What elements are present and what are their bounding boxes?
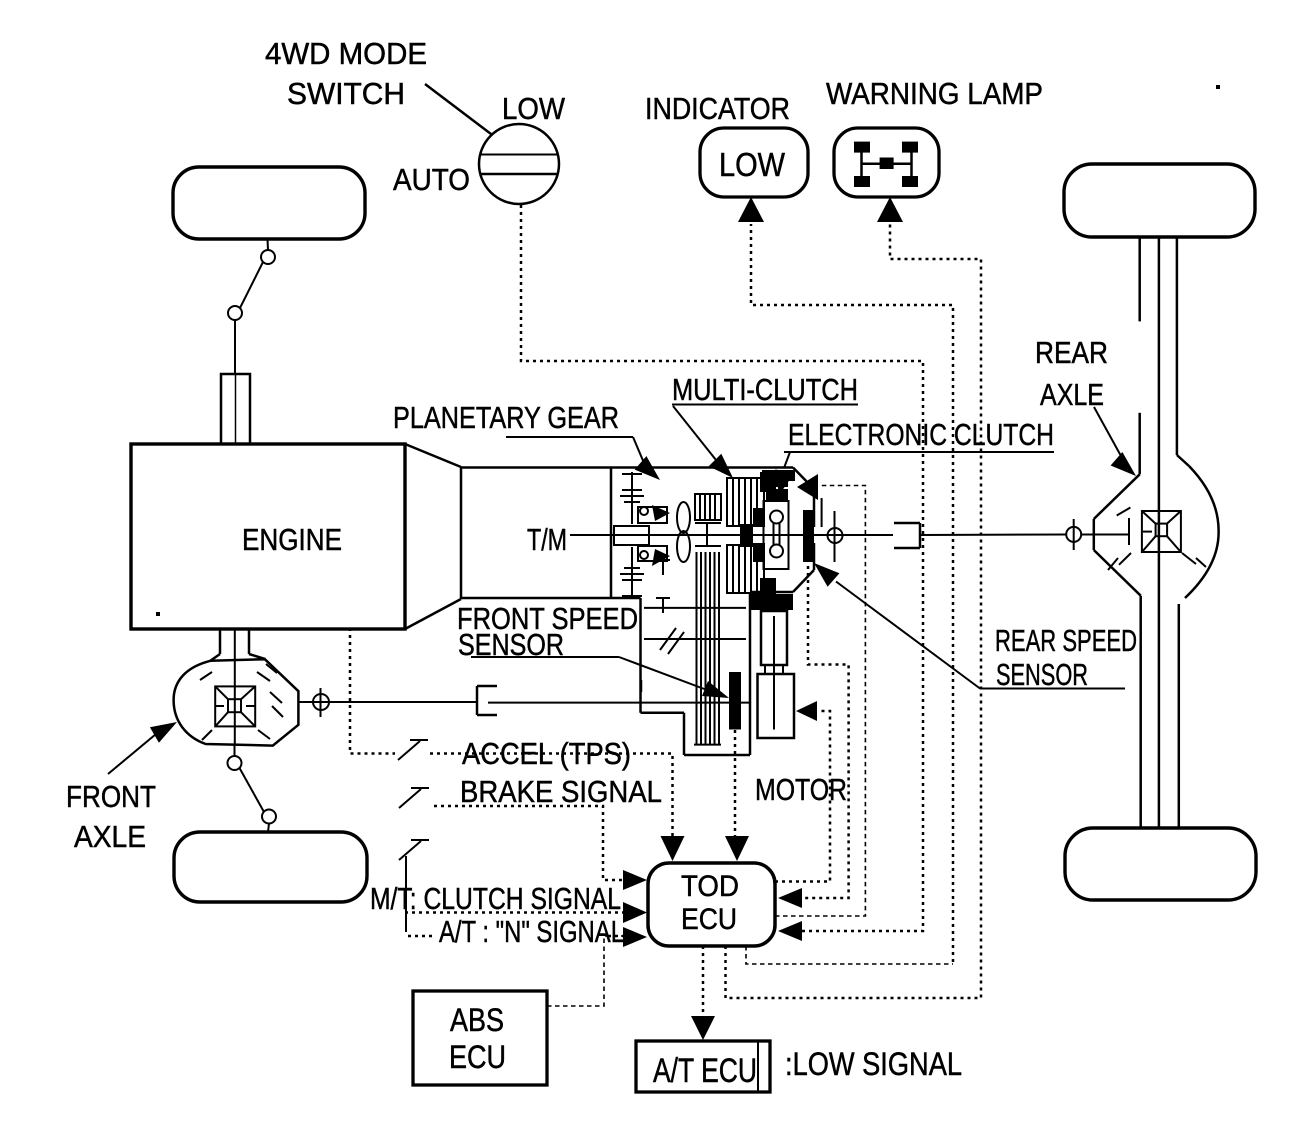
front axle input shaft xyxy=(221,374,250,444)
arrow M/T into TOD left xyxy=(623,902,647,923)
svg-text:AXLE: AXLE xyxy=(1040,377,1104,412)
output coupling link xyxy=(764,501,789,569)
front propshaft slip joint bracket xyxy=(477,686,497,715)
svg-text:INDICATOR: INDICATOR xyxy=(645,91,790,126)
planetary gear set xyxy=(614,472,670,599)
wire mode switch to TOD xyxy=(521,205,923,931)
callout front axle xyxy=(108,722,177,774)
rear differential housing xyxy=(1094,466,1219,828)
svg-text:ECU: ECU xyxy=(449,1039,506,1075)
arrow TOD to motor xyxy=(796,701,817,721)
switch symbol brake xyxy=(399,788,429,808)
wheel front-left xyxy=(173,167,365,239)
arrow into warning lamp xyxy=(877,197,903,222)
dotted signal lines xyxy=(350,205,981,1017)
front shaft joint xyxy=(313,688,329,717)
svg-text:ABS: ABS xyxy=(450,1002,504,1038)
wire rear speed sensor to TOD xyxy=(803,566,849,898)
warning lamp box xyxy=(834,128,939,197)
svg-text:TOD: TOD xyxy=(681,870,739,903)
arrow TOD to A/T ECU xyxy=(691,1016,715,1040)
front output drop chain column xyxy=(694,552,721,745)
svg-text:REAR SPEED: REAR SPEED xyxy=(995,623,1137,658)
svg-text::LOW SIGNAL: :LOW SIGNAL xyxy=(785,1046,962,1082)
arrow A/T into TOD left xyxy=(623,927,647,947)
svg-text:PLANETARY GEAR: PLANETARY GEAR xyxy=(393,400,619,435)
front differential bevel marks xyxy=(200,664,283,740)
transmission and transfer case outline xyxy=(461,468,814,756)
wheel rear-right lower xyxy=(1065,828,1256,900)
transfer case section lines xyxy=(644,608,746,654)
wire TOD to A/T ECU xyxy=(702,946,705,1017)
tick below case wall xyxy=(640,680,643,692)
svg-text:4WD MODE: 4WD MODE xyxy=(265,36,427,71)
warning lamp 4wd icon xyxy=(854,142,918,187)
rear differential bevel marks xyxy=(1108,508,1206,571)
svg-text:SWITCH: SWITCH xyxy=(287,76,405,111)
svg-text:A/T ECU: A/T ECU xyxy=(653,1052,757,1090)
bell housing xyxy=(405,444,461,629)
case black corner upper xyxy=(762,470,795,481)
arrow front speed into TOD top xyxy=(725,836,749,861)
speck top right xyxy=(1216,85,1220,89)
svg-text:FRONT: FRONT xyxy=(66,779,156,814)
wire M/T clutch signal to TOD xyxy=(405,911,624,914)
svg-text:BRAKE SIGNAL: BRAKE SIGNAL xyxy=(460,774,662,809)
multi-clutch pack upper xyxy=(727,472,776,535)
callout rear axle xyxy=(1094,407,1136,476)
arrow brake into TOD left xyxy=(623,870,647,890)
small bearing marks under planetary xyxy=(656,560,670,613)
front output shaft xyxy=(298,701,749,704)
speck in engine xyxy=(156,612,160,616)
svg-text:M/T: CLUTCH SIGNAL: M/T: CLUTCH SIGNAL xyxy=(370,881,621,916)
4WD mode switch symbol xyxy=(425,84,559,204)
switch symbol accel xyxy=(398,740,428,760)
rear speed sensor rotor (black bar) xyxy=(803,510,814,562)
rear propshaft slip joint bracket xyxy=(894,523,920,548)
svg-text:T/M: T/M xyxy=(527,522,567,557)
arrow into indicator xyxy=(738,197,764,222)
svg-text:SENSOR: SENSOR xyxy=(996,657,1088,692)
front differential gear (square with cross) xyxy=(215,686,255,726)
output joint xyxy=(828,511,843,562)
rear axle housing upper xyxy=(1140,237,1189,828)
svg-text:WARNING LAMP: WARNING LAMP xyxy=(826,76,1043,111)
wire TOD to indicator (return tail) xyxy=(746,946,953,964)
wire TOD to electronic clutch xyxy=(775,486,865,917)
ABS ECU box xyxy=(413,991,547,1085)
switch symbol clutch/neutral xyxy=(399,840,429,932)
wheel rear-right xyxy=(1064,164,1255,237)
callout electronic clutch xyxy=(775,452,1054,500)
svg-text:ELECTRONIC CLUTCH: ELECTRONIC CLUTCH xyxy=(788,417,1054,452)
wire ABS ECU to TOD xyxy=(547,936,624,1006)
svg-text:MOTOR: MOTOR xyxy=(755,772,847,807)
callout multi-clutch xyxy=(672,405,858,479)
TOD ECU box xyxy=(648,863,775,946)
rear shaft joint xyxy=(1066,519,1081,550)
arrow mode switch into TOD right xyxy=(778,921,802,941)
wire brake signal to TOD xyxy=(434,806,624,880)
svg-text:LOW: LOW xyxy=(502,91,566,126)
engine lower shaft to front axle xyxy=(210,629,265,745)
front speed sensor (black bar) xyxy=(729,672,741,730)
svg-text:MULTI-CLUTCH: MULTI-CLUTCH xyxy=(672,372,858,407)
svg-text:ECU: ECU xyxy=(681,903,737,936)
callout planetary gear xyxy=(506,437,660,480)
drive chain sprocket ellipses xyxy=(677,502,690,562)
electronic clutch actuator (black) xyxy=(766,474,822,527)
callout rear speed sensor xyxy=(814,563,1125,689)
upper gear block xyxy=(695,494,721,546)
wire accel TPS to TOD xyxy=(350,628,395,754)
wheel front-left lower xyxy=(174,832,367,902)
wire TOD to motor xyxy=(775,711,830,882)
callout front speed sensor xyxy=(471,657,729,698)
svg-text:REAR: REAR xyxy=(1035,335,1108,370)
svg-text:A/T : "N" SIGNAL: A/T : "N" SIGNAL xyxy=(439,914,624,949)
svg-text:AXLE: AXLE xyxy=(74,819,146,854)
arrow rear speed into TOD right xyxy=(778,888,802,908)
svg-text:ENGINE: ENGINE xyxy=(242,522,342,557)
thin dashed control lines xyxy=(547,486,953,1007)
wire TOD to indicator xyxy=(751,224,953,962)
front axle differential housing xyxy=(174,659,299,745)
rear differential gear (square with cross) xyxy=(1142,511,1181,552)
main shaft (T/M to rear) xyxy=(570,534,1129,537)
svg-text:AUTO: AUTO xyxy=(393,162,470,197)
link front diff to lower wheel xyxy=(228,745,277,832)
engine block xyxy=(131,444,405,629)
A/T ECU box xyxy=(636,1041,770,1092)
wire A/T N signal to TOD xyxy=(408,935,436,938)
case black corner lower xyxy=(751,594,793,610)
indicator box xyxy=(700,128,808,197)
svg-text:LOW: LOW xyxy=(719,146,786,183)
motor assembly xyxy=(758,611,795,738)
link front wheel to axle shaft (swivel joints) xyxy=(228,239,275,374)
wire front speed sensor to TOD xyxy=(734,730,737,838)
wire TOD to warning lamp xyxy=(726,224,982,998)
multi-clutch pack lower xyxy=(727,536,776,598)
arrow accel into TOD top xyxy=(661,836,685,861)
